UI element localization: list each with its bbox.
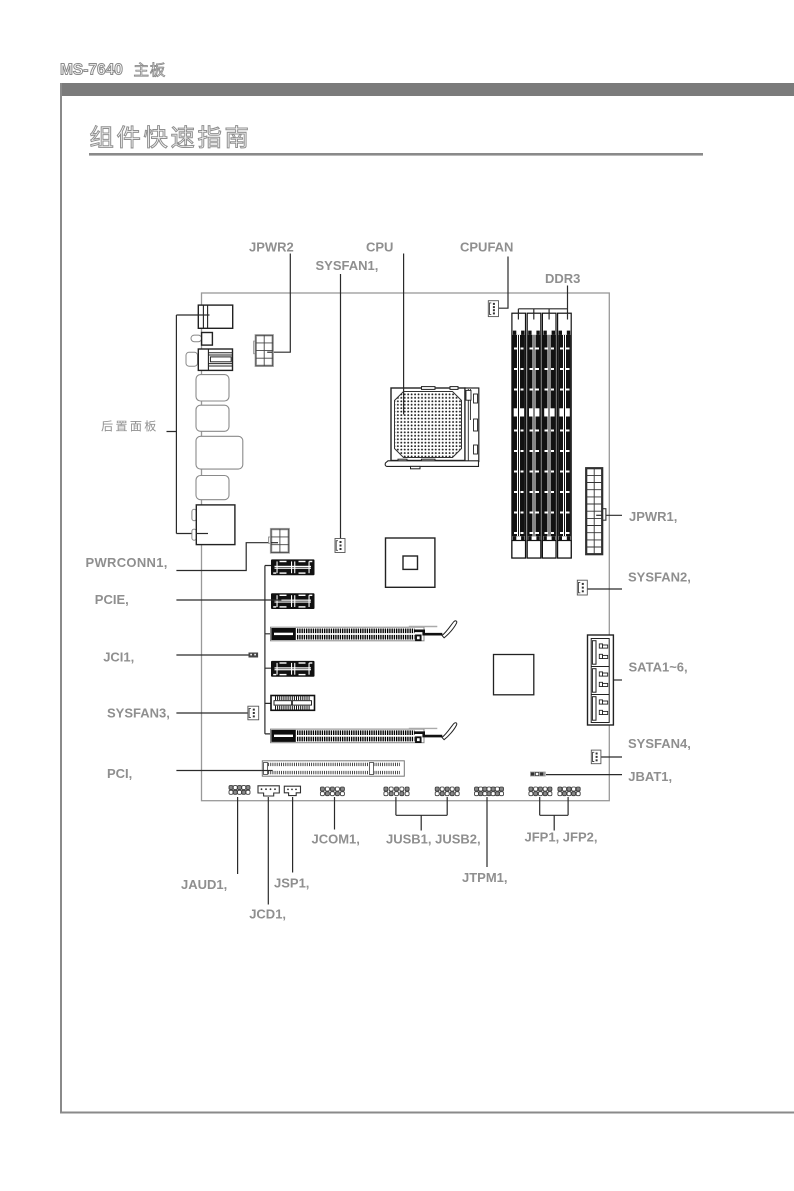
connector JPWR2 tab bbox=[254, 341, 256, 354]
connector JFP2 bbox=[558, 787, 562, 791]
connector PWRCONN1 bbox=[271, 529, 289, 552]
PCIE x4 slot bbox=[271, 696, 315, 711]
left page rule bbox=[60, 83, 62, 1113]
SATA section 3 bbox=[591, 694, 609, 696]
connector JCOM1 bbox=[320, 787, 324, 791]
svg-text:JPWR2: JPWR2 bbox=[249, 240, 294, 255]
leader JPWR2 bbox=[267, 254, 290, 353]
connector JCD1 bbox=[258, 786, 279, 796]
svg-text:SYSFAN2,: SYSFAN2, bbox=[628, 570, 691, 585]
leader SATA bbox=[614, 679, 622, 681]
connector JTPM1 bbox=[475, 787, 479, 791]
back panel audio jack B bbox=[196, 405, 229, 431]
PCIE x16 slot 2 bbox=[271, 729, 425, 743]
svg-text:CPU: CPU bbox=[366, 240, 393, 255]
SATA1~6 block bbox=[588, 635, 614, 725]
connector JSP1 bbox=[284, 786, 300, 795]
svg-text:MS-7640: MS-7640 bbox=[60, 62, 123, 79]
leader JAUD1 bbox=[237, 797, 239, 874]
CPU socket bbox=[391, 388, 465, 461]
connector JUSB2 bbox=[435, 787, 439, 791]
back panel USB/LAN tab bbox=[186, 352, 198, 366]
leader overlay JPWR2 bbox=[267, 351, 272, 353]
svg-text:JCOM1,: JCOM1, bbox=[312, 832, 360, 847]
svg-text:PCIE,: PCIE, bbox=[95, 592, 129, 607]
top gray bar bbox=[60, 83, 794, 96]
SATA section 2 bbox=[591, 666, 609, 668]
CPU socket lever column bbox=[465, 388, 479, 462]
PCI slot bbox=[262, 761, 404, 776]
label 后置面板 bbox=[101, 420, 112, 431]
leader SYSFAN1 bbox=[340, 274, 342, 539]
connector JPWR1 bbox=[586, 468, 602, 554]
leader overlay JPWR1 bbox=[596, 514, 602, 516]
svg-text:CPUFAN: CPUFAN bbox=[460, 240, 513, 255]
DDR3 slot 2 bbox=[527, 313, 541, 558]
leader overlay back panel bottom bbox=[196, 533, 208, 535]
leader SYSFAN3 bbox=[176, 712, 248, 714]
connector CPUFAN bbox=[488, 301, 498, 317]
leader PCIE bbox=[176, 566, 272, 734]
svg-text:SYSFAN1,: SYSFAN1, bbox=[316, 258, 379, 273]
leader JCI1 bbox=[176, 654, 248, 656]
svg-text:JBAT1,: JBAT1, bbox=[628, 769, 672, 784]
leader DDR3 harness bbox=[518, 286, 567, 314]
svg-text:JPWR1,: JPWR1, bbox=[629, 509, 677, 524]
PCIE x16 slot 1 bbox=[271, 627, 425, 641]
svg-text:JSP1,: JSP1, bbox=[274, 876, 309, 891]
back panel coax tab bbox=[191, 335, 202, 342]
CPU socket lever arm bbox=[385, 461, 478, 467]
page title 组件快速指南 bbox=[91, 126, 113, 148]
connector SYSFAN2 bbox=[577, 580, 587, 595]
DDR3 slot 4 bbox=[558, 313, 572, 558]
connector JAUD1 bbox=[229, 786, 233, 790]
PCIE x1 slot 2 bbox=[271, 593, 315, 609]
connector SYSFAN4 bbox=[591, 750, 601, 764]
back panel bottom tabs bbox=[192, 509, 196, 520]
PCIE x1 slot 3 bbox=[271, 661, 315, 677]
svg-text:JFP1, JFP2,: JFP1, JFP2, bbox=[525, 830, 598, 845]
leader JCOM1 bbox=[334, 797, 336, 830]
back panel audio jack C wide bbox=[196, 436, 243, 469]
leader CPU bbox=[403, 254, 405, 389]
title underline bbox=[89, 153, 703, 156]
connector JFP1 bbox=[529, 787, 533, 791]
leader PCI bbox=[176, 770, 262, 772]
leader PWRCONN1 bbox=[176, 543, 270, 571]
SATA section 1 bbox=[592, 641, 596, 665]
leader JFP1 JFP2 bbox=[540, 797, 568, 831]
back panel USB/LAN block bbox=[198, 349, 232, 370]
svg-text:JUSB1, JUSB2,: JUSB1, JUSB2, bbox=[386, 832, 481, 847]
connector JCI1 bbox=[249, 653, 259, 658]
connector SYSFAN3 bbox=[248, 706, 259, 720]
connector JPWR1 tab bbox=[602, 509, 606, 521]
connector PWRCONN1 tab bbox=[269, 537, 272, 543]
svg-text:PCI,: PCI, bbox=[107, 766, 132, 781]
DDR3 slot 3 bbox=[542, 313, 556, 558]
bottom page rule bbox=[60, 1112, 794, 1114]
leader overlay PCI slot bbox=[262, 770, 273, 772]
svg-text:JCD1,: JCD1, bbox=[249, 907, 286, 922]
back panel audio jack A bbox=[196, 375, 229, 401]
svg-text:DDR3: DDR3 bbox=[545, 271, 580, 286]
leader JPWR1 bbox=[596, 514, 622, 516]
PCIE x1 slot 1 bbox=[271, 559, 315, 575]
leader overlay PWRCONN1 bbox=[271, 542, 278, 544]
svg-text:JCI1,: JCI1, bbox=[103, 650, 134, 665]
svg-text:JAUD1,: JAUD1, bbox=[181, 877, 227, 892]
leader JTPM1 bbox=[486, 797, 488, 867]
leader SYSFAN2 bbox=[584, 588, 622, 590]
leader SYSFAN4 bbox=[601, 756, 622, 758]
svg-text:SYSFAN4,: SYSFAN4, bbox=[628, 736, 691, 751]
svg-text:SATA1~6,: SATA1~6, bbox=[629, 660, 688, 675]
connector SYSFAN1 bbox=[335, 539, 345, 553]
leader overlay back panel top bbox=[198, 314, 209, 316]
chipset square 2 bbox=[494, 655, 534, 695]
leader JCD1 bbox=[267, 797, 269, 905]
svg-text:JTPM1,: JTPM1, bbox=[462, 870, 508, 885]
leader CPUFAN bbox=[499, 257, 508, 309]
leader JUSB1 JUSB2 bbox=[396, 797, 447, 831]
connector JPWR2 bbox=[256, 335, 273, 366]
leader JSP1 bbox=[292, 797, 294, 873]
leader overlay PCIE slot2 bbox=[270, 599, 281, 601]
back panel SPDIF square bbox=[202, 333, 213, 346]
back panel PS/2 connector bbox=[198, 305, 232, 328]
back panel audio jack D bbox=[196, 476, 229, 500]
back panel bottom USB/LAN block bbox=[196, 505, 235, 545]
connector JUSB1 bbox=[384, 787, 388, 791]
svg-text:SYSFAN3,: SYSFAN3, bbox=[107, 706, 170, 721]
leader overlay DDR3 stubs bbox=[518, 313, 567, 320]
motherboard outline bbox=[202, 293, 610, 801]
DDR3 slot 1 bbox=[512, 313, 526, 558]
chipset square with heatsink bbox=[386, 538, 435, 587]
leader 后置面板 bracket bbox=[167, 315, 210, 534]
svg-text:PWRCONN1,: PWRCONN1, bbox=[86, 555, 168, 570]
connector JBAT1 bbox=[530, 772, 546, 777]
leader JBAT1 bbox=[546, 774, 622, 776]
leader overlay CPU into socket bbox=[403, 388, 405, 414]
